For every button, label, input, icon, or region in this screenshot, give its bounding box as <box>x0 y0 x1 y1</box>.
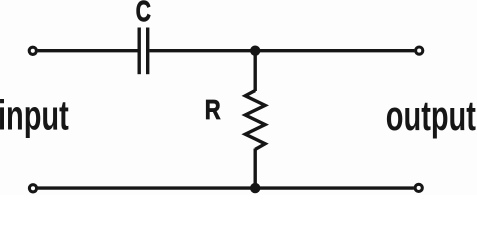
svg-text:output: output <box>386 93 476 139</box>
terminal output top <box>416 47 423 54</box>
terminal input top <box>29 47 36 54</box>
wire top-right (capacitor to output terminal) <box>149 49 414 52</box>
wire top-left (input terminal to capacitor) <box>38 49 138 52</box>
wire bottom (input terminal to output terminal) <box>38 186 414 189</box>
svg-text:C: C <box>136 0 151 28</box>
wire resistor bottom lead <box>253 149 256 189</box>
node junction top <box>250 46 260 56</box>
svg-text:input: input <box>0 93 69 139</box>
wire resistor top lead <box>253 51 256 91</box>
terminal input bottom <box>29 185 36 192</box>
terminal output bottom <box>415 184 422 191</box>
capacitor C <box>139 28 148 75</box>
resistor R zigzag <box>245 91 265 150</box>
node junction bottom <box>250 183 260 193</box>
svg-text:R: R <box>205 94 221 125</box>
